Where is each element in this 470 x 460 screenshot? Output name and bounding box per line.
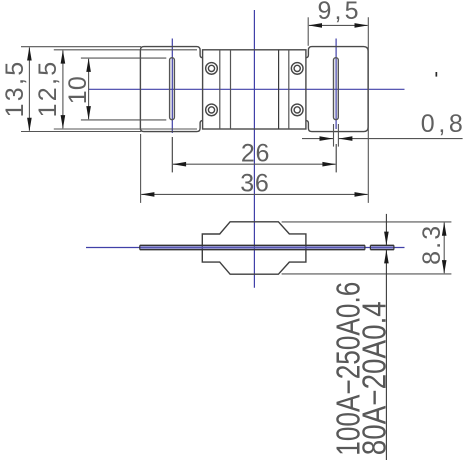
- body groove line 4: [288, 50, 290, 129]
- ext line top: [282, 221, 452, 223]
- arrow up 8.3: [442, 222, 447, 236]
- ext line top: [54, 49, 197, 51]
- arrow up 10: [86, 58, 91, 72]
- arrow up 13,5: [27, 47, 32, 61]
- rivet top-left: [206, 63, 218, 75]
- ext line top: [21, 46, 141, 48]
- arrow left 9,5: [308, 23, 322, 28]
- dim line: [62, 51, 64, 129]
- wire: centerline horizontal (side view): [86, 247, 405, 249]
- blade stub cap right: [393, 245, 395, 249]
- svg-text:9,5: 9,5: [318, 0, 359, 25]
- blade stub blue core: [370, 246, 394, 248]
- blade main segment top edge: [140, 244, 365, 246]
- arrow left 26: [173, 162, 187, 167]
- arrow left 36: [141, 192, 155, 197]
- dim tail left: [302, 138, 333, 140]
- svg-text:13,5: 13,5: [1, 62, 29, 118]
- ext line right: [337, 124, 339, 147]
- rivet top-right: [291, 63, 303, 75]
- dim line lower segment: [385, 250, 387, 460]
- arrow down 8.3: [442, 260, 447, 274]
- arrow right 9,5: [355, 23, 369, 28]
- right slot: [334, 58, 339, 120]
- dim line: [141, 193, 367, 195]
- arrow down 10: [86, 106, 91, 120]
- blade stub cap left: [369, 245, 371, 249]
- ext line bottom: [21, 131, 141, 133]
- arrow right-pointing 0,8: [320, 136, 334, 141]
- arrow left-pointing 0,8: [339, 136, 353, 141]
- arrow right 36: [355, 192, 369, 197]
- svg-text:36: 36: [240, 170, 268, 198]
- ext line top: [81, 57, 166, 59]
- left slot: [170, 58, 175, 120]
- blade end cap right: [364, 245, 366, 249]
- stray tick mark: [436, 72, 438, 77]
- arrow down 13,5: [27, 118, 32, 132]
- ext line right (shared with 36): [367, 17, 369, 203]
- dim line: [88, 59, 90, 119]
- dim line upper segment: [385, 214, 387, 245]
- ext line left: [140, 134, 142, 203]
- side body outline: [202, 222, 306, 274]
- blade main segment bottom edge: [140, 249, 365, 251]
- rivet bottom-left: [206, 104, 218, 116]
- ext line bottom: [54, 128, 197, 130]
- wire: centerline horizontal (top view): [89, 88, 405, 90]
- body groove line 3: [278, 50, 280, 129]
- arrow down thickness: [384, 232, 389, 246]
- svg-text:10: 10: [64, 76, 92, 104]
- dim line: [28, 48, 30, 131]
- right tab outline: [306, 47, 368, 132]
- wire: centerline right slot: [335, 39, 337, 130]
- blade stub bottom edge: [370, 249, 394, 251]
- svg-text:0,8: 0,8: [421, 110, 463, 138]
- dim line: [309, 24, 368, 26]
- svg-text:26: 26: [241, 139, 270, 167]
- blade stub top edge: [370, 244, 394, 246]
- svg-text:12,5: 12,5: [34, 62, 62, 118]
- ext line right (slot center ext): [335, 144, 337, 172]
- blade end cap left: [139, 245, 141, 249]
- wire: centerline left slot: [171, 39, 173, 134]
- arrow up 12,5: [61, 50, 66, 64]
- body groove line 2: [230, 50, 232, 129]
- dim line: [173, 163, 336, 165]
- arrow right 26: [322, 162, 336, 167]
- blade main blue core: [140, 246, 365, 248]
- svg-text:80A−20A0.4: 80A−20A0.4: [356, 301, 393, 455]
- body rectangle: [203, 50, 306, 129]
- arrow down 12,5: [61, 115, 66, 129]
- ext line left: [333, 124, 335, 147]
- body groove line 1: [219, 50, 221, 129]
- ext line bottom: [282, 273, 452, 275]
- arrow up thickness: [384, 250, 389, 264]
- svg-text:8.3: 8.3: [418, 226, 446, 265]
- dim tail right: [339, 138, 463, 140]
- dim line: [443, 223, 445, 274]
- ext line left: [307, 17, 309, 46]
- ext line left (slot center ext): [171, 137, 173, 172]
- left tab outline: [140, 47, 202, 132]
- wire: centerline vertical center (both views): [253, 10, 255, 288]
- rivet bottom-right: [291, 104, 303, 116]
- ext line bottom: [81, 119, 166, 121]
